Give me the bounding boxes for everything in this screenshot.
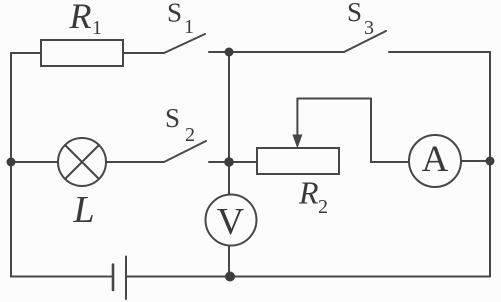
battery long plate (125, 257, 127, 300)
label L (73, 189, 95, 231)
resistor R1 (41, 40, 123, 66)
battery short plate (112, 265, 115, 291)
svg-text:R: R (69, 0, 92, 36)
svg-text:2: 2 (185, 124, 195, 146)
label A (422, 139, 449, 180)
svg-text:V: V (217, 201, 245, 243)
label R2 (298, 175, 328, 219)
svg-text:3: 3 (364, 17, 374, 39)
node junction lamp-left (7, 158, 16, 167)
wire top-left horizontal (11, 52, 41, 54)
node junction S2/R2 (224, 157, 234, 167)
lamp cross line 1 (65, 145, 99, 179)
label R1 (69, 0, 103, 39)
rheostat wiper top wire (297, 98, 371, 100)
wire bottom right (126, 276, 490, 278)
wire to ammeter (371, 161, 409, 163)
wire S3 to right corner (389, 51, 490, 53)
wire right vertical (489, 52, 491, 277)
label S1 (167, 0, 194, 38)
rheostat wiper arrowhead (292, 135, 302, 149)
svg-text:1: 1 (92, 17, 102, 39)
svg-text:S: S (347, 0, 362, 27)
wire bottom left (11, 276, 113, 278)
switch S1 (164, 34, 205, 53)
lamp cross line 2 (65, 145, 99, 179)
wire S2 to R2 (209, 161, 257, 163)
label S3 (347, 0, 374, 39)
switch S3 (344, 31, 386, 52)
svg-text:1: 1 (184, 16, 194, 38)
wire left vertical (10, 53, 12, 277)
wire R1 to S1 (123, 52, 164, 54)
svg-text:S: S (167, 0, 182, 28)
wire S1 to S3 (209, 51, 344, 53)
rheostat wiper stem (296, 99, 298, 137)
svg-text:L: L (73, 189, 95, 231)
voltmeter V circle (206, 195, 257, 246)
lamp L circle (58, 138, 106, 186)
node junction bottom (225, 272, 235, 282)
wire wiper right vertical (370, 99, 372, 163)
label V (217, 201, 245, 243)
svg-text:A: A (422, 139, 449, 180)
switch S2 (164, 141, 206, 162)
rheostat R2 box (257, 148, 339, 174)
wire ammeter to right edge (461, 160, 490, 162)
svg-text:2: 2 (318, 196, 328, 218)
label S2 (165, 103, 195, 146)
svg-text:R: R (298, 175, 319, 211)
wire lamp branch left (11, 161, 58, 163)
wire mid vertical upper (228, 52, 230, 194)
wire mid vertical lower (228, 246, 230, 277)
node junction right (486, 157, 495, 166)
node junction top (225, 48, 234, 57)
wire lamp to S2 (106, 161, 164, 163)
ammeter A circle (409, 135, 461, 187)
svg-text:S: S (165, 103, 180, 133)
